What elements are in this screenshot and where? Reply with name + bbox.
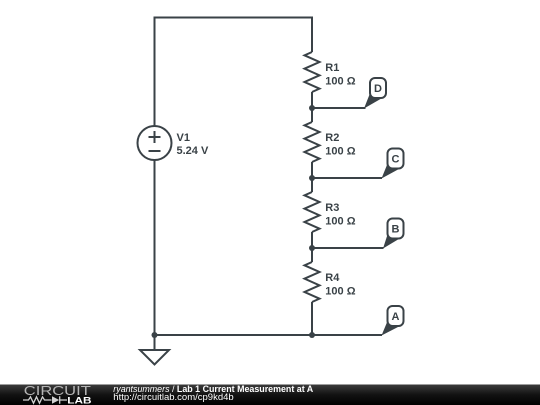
svg-text:V1: V1: [177, 132, 190, 144]
svg-text:R2: R2: [325, 132, 339, 144]
svg-text:100 Ω: 100 Ω: [325, 286, 355, 298]
wire between R2 and R3: [311, 162, 313, 192]
wire between R3 and R4: [311, 232, 313, 262]
junction node B: [309, 245, 315, 251]
ground: [140, 335, 169, 365]
wire node B branch: [312, 247, 384, 249]
svg-text:100 Ω: 100 Ω: [325, 76, 355, 88]
svg-text:R3: R3: [325, 202, 339, 214]
wire between R1 and R2: [311, 92, 313, 122]
wire node D branch: [312, 107, 366, 109]
junction ground node: [152, 332, 158, 338]
node flag C: [388, 149, 404, 169]
resistor R1: [305, 52, 320, 92]
svg-text:5.24 V: 5.24 V: [177, 145, 209, 157]
resistor R4: [305, 262, 320, 302]
logo resistor-diode symbol: [23, 396, 67, 403]
junction node C: [309, 175, 315, 181]
resistor R2: [305, 122, 320, 162]
svg-text:C: C: [392, 154, 400, 166]
wire node C branch: [312, 177, 382, 179]
pointer tail node B: [383, 230, 398, 249]
junction node D: [309, 105, 315, 111]
svg-text:100 Ω: 100 Ω: [325, 146, 355, 158]
pointer tail node D: [364, 90, 381, 109]
wire bottom rail: [155, 334, 383, 336]
svg-text:R4: R4: [325, 272, 340, 284]
resistor R3: [305, 192, 320, 232]
svg-text:A: A: [392, 311, 400, 323]
pointer tail node A: [382, 318, 399, 336]
svg-text:R1: R1: [325, 62, 339, 74]
svg-text:B: B: [392, 224, 400, 236]
wire top rail from V1 to resistor column: [155, 18, 313, 127]
svg-text:100 Ω: 100 Ω: [325, 216, 355, 228]
footer bar: [0, 385, 540, 405]
junction node A: [309, 332, 315, 338]
svg-text:LAB: LAB: [67, 395, 91, 405]
wire left vertical below V1: [154, 160, 156, 335]
svg-text:D: D: [374, 83, 382, 95]
node flag B: [388, 219, 404, 239]
pointer tail node C: [382, 160, 399, 179]
voltage source V1: [138, 126, 172, 160]
node flag D: [370, 78, 386, 98]
wire R4 to bottom rail: [311, 302, 313, 335]
svg-text:http://circuitlab.com/cp9kd4b: http://circuitlab.com/cp9kd4b: [113, 392, 233, 403]
node flag A: [388, 306, 404, 326]
